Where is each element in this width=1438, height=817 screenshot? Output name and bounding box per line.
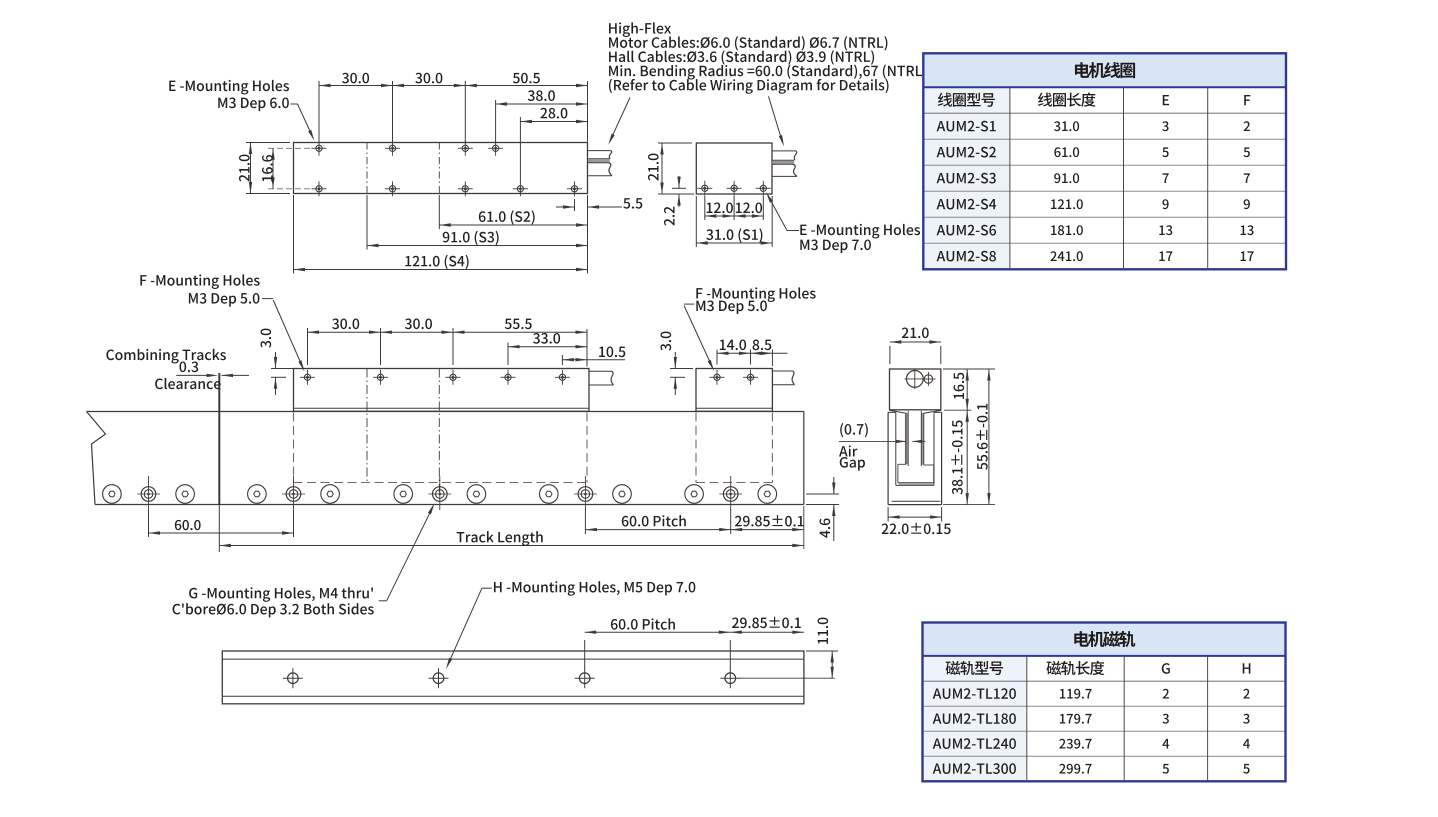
E mounting holes top row: [312, 141, 504, 156]
magnet track bottom view body: [222, 651, 804, 704]
dimension 22.0 cross section: [882, 507, 951, 534]
dimension 30.0 track coil 2: [381, 319, 454, 334]
dimension 14.0 and 8.5: [717, 340, 787, 367]
dimension 16.6 hole row spacing: [262, 148, 311, 189]
dimension 30.0 track coil 1: [308, 319, 381, 334]
hidden coil S4 footprint dashed outline: [294, 413, 588, 483]
dimension 4.6: [806, 477, 839, 541]
track G mounting holes with counterbore: [103, 485, 777, 504]
dimension 60.0 Pitch middle: [585, 509, 730, 534]
dimension 121.0 (S4): [294, 195, 588, 274]
combining tracks joint line: [218, 373, 220, 552]
dimension 3.0 coil S1: [661, 332, 694, 395]
coil S4 top view body: [294, 143, 588, 194]
cross section chamfers: [890, 410, 941, 413]
dimension 11.0 bottom: [740, 618, 838, 679]
table 电机磁轨 data rows: [933, 688, 1250, 774]
dimension 38.0: [496, 90, 588, 105]
leader to coil S1 cable: [769, 96, 785, 146]
dimension 30.0 (hole pitch 1): [319, 73, 393, 88]
table 电机线圈 data rows: [937, 121, 1254, 262]
track hole centerline extensions: [0, 0, 1, 1]
cross section magnet plates with air gaps: [905, 411, 924, 466]
dimension 21.0 cross section: [890, 328, 941, 365]
dimension 31.0 (S1): [696, 196, 772, 247]
right edge extension line: [587, 195, 589, 274]
F mounting holes on coil S1: [710, 370, 759, 385]
coil S1 end view body: [696, 143, 772, 194]
leader to coil S4 cable: [608, 98, 630, 145]
dimension 5.5: [556, 198, 642, 211]
dimension 10.5: [562, 347, 625, 362]
dimension 28.0: [520, 108, 587, 123]
label Combining Tracks 0.3 Clearance: [106, 349, 249, 389]
H mounting holes bottom view: [283, 668, 740, 688]
dimension 61.0 (S2): [439, 195, 587, 229]
coil S4 on track segment dash-dot lines: [367, 369, 439, 493]
dimension 3.0 coil S4: [261, 329, 298, 395]
dimension 21.0 S1 height: [648, 143, 692, 194]
track right edge extension: [803, 506, 805, 549]
coil S1 on track cable stub: [772, 371, 794, 385]
cross section coil top block: [890, 369, 941, 410]
E mounting holes bottom row: [312, 181, 583, 196]
dimension 55.6 cross section: [943, 369, 995, 505]
dimension 38.1 cross section: [951, 410, 969, 504]
table 电机磁轨 column headers: [946, 661, 1251, 675]
dimension 2.2: [664, 176, 694, 226]
dimension 29.85 middle: [731, 515, 804, 531]
label H-Mounting Holes with leader: [446, 581, 695, 669]
dimension 91.0 (S3): [367, 195, 588, 250]
coil S4 on track body: [294, 369, 590, 412]
extension lines above coil S4 on track: [308, 328, 588, 367]
label F-Mounting Holes M3 Dep 5.0 right with leader: [684, 287, 816, 371]
table 电机磁轨 frame and header: [923, 623, 1286, 782]
dimension 16.5 cross section: [943, 369, 995, 410]
label G-Mounting Holes with leader: [173, 503, 435, 617]
dimension 50.5: [465, 73, 587, 88]
cross section track body: [888, 412, 942, 504]
extension lines above coil S4: [319, 81, 588, 183]
hidden coil S1 footprint dashed outline: [696, 413, 772, 483]
label E-Mounting Holes M3 Dep 7.0 with leader: [766, 192, 920, 253]
dimension 21.0 coil height: [239, 143, 290, 194]
dimension 12.0 12.0: [705, 196, 764, 220]
coil S4 cable stub: [589, 371, 614, 385]
dimension Track Length: [219, 531, 804, 547]
dimension 30.0 (hole pitch 2): [393, 73, 466, 88]
air gap callout (0.7): [839, 423, 926, 471]
label F-Mounting Holes M3 Dep 5.0 left with leader: [140, 274, 304, 371]
table 电机线圈 frame and header: [923, 53, 1286, 269]
cross section inner cavity: [898, 464, 934, 485]
coil S1 cable stub with break: [772, 151, 797, 177]
dimension 60.0 Pitch bottom: [585, 618, 731, 669]
dimension 33.0: [508, 333, 587, 348]
table 电机磁轨 title text: [1074, 631, 1135, 647]
track H holes crosshair: [137, 476, 742, 510]
F mounting holes on coil S4: [300, 370, 570, 385]
coil S4 cable stub with break: [588, 151, 612, 176]
dimension 55.5: [453, 319, 587, 334]
cross section hole circles: [905, 370, 936, 390]
table 电机线圈 title text: [1075, 62, 1135, 78]
coil S1 mounting holes: [697, 181, 771, 196]
table 电机线圈 column headers: [938, 92, 1250, 106]
dimension 29.85 bottom: [730, 617, 804, 634]
coil S4 segment boundary dash-dot lines: [367, 143, 439, 194]
label E-Mounting Holes M3 Dep 6.0 with leader: [169, 80, 314, 141]
High-Flex cable note text block: [609, 22, 926, 93]
dimension 60.0 left: [149, 509, 294, 537]
coil S1 on track body: [696, 369, 772, 412]
magnet track side view outline with left break: [87, 412, 804, 505]
